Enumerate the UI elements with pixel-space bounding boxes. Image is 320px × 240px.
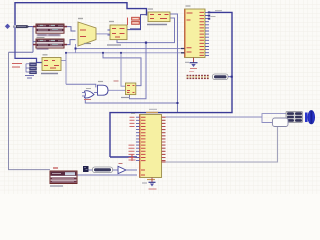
wire small gate down to row C (85, 97, 177, 104)
wire terminal to DSW1 (28, 26, 36, 28)
wire sounder return long bottom (166, 127, 278, 163)
wire trapezoid output to square box (97, 33, 111, 35)
wire vertical x33 down-left branch (9, 27, 37, 53)
wire FF bottom loop up x146 (130, 43, 147, 99)
junction dot x66 (65, 52, 67, 54)
speaker block (286, 112, 303, 123)
LCD keypad block (50, 168, 77, 186)
wire top bus from terminal to U5 (15, 3, 147, 26)
icon block (83, 166, 89, 172)
wire square box bottom row to U5 (117, 18, 175, 43)
flip-flop U7 (114, 81, 136, 98)
input terminal diamond (5, 24, 10, 29)
net label respack (213, 74, 233, 80)
junction dot x121 (120, 52, 122, 54)
wire keypad row2 to MCU2 (77, 174, 137, 176)
IC U5 (147, 9, 170, 25)
DIP block DSW2 (33, 39, 67, 49)
OR gate small (82, 89, 94, 100)
resistor pack row (187, 72, 209, 80)
white relay box (273, 118, 289, 127)
wire U5 pin1 down long x177 (170, 14, 178, 113)
ground GND1 (185, 58, 198, 69)
wire osc box output up (61, 53, 66, 85)
wire DSW2 to mux input2 (64, 40, 76, 45)
junction dot x75 (75, 48, 77, 50)
MCU U4 (181, 6, 222, 58)
wire x121 to FF left pin (121, 53, 126, 86)
junction dot x103 (102, 52, 104, 54)
wire row B to MCU pin (66, 52, 184, 54)
wire gate feed (66, 84, 96, 87)
wire row A to MCU pin (76, 48, 185, 50)
buffer gate (118, 164, 137, 174)
wire keypad row1 to MCU2 (89, 169, 138, 171)
wire jog x103 to FF right pin (103, 53, 141, 86)
AND gate (94, 82, 108, 96)
wire gate output to FF (108, 89, 126, 91)
capacitors C1 C2 (128, 15, 141, 30)
mux U1 trapezoid (78, 19, 96, 47)
wire square box to caps cluster (127, 15, 147, 30)
sounder blue (305, 110, 315, 124)
MCU U3 bottom (129, 109, 166, 179)
wire MCU2 right pin to speaker (166, 114, 287, 123)
net label DCLOCK (13, 25, 30, 28)
junction dot x146 (145, 42, 147, 44)
DIP block DSW1 (33, 24, 67, 38)
wire big loop to MCU2 (110, 12, 232, 157)
ground GND2 (142, 178, 157, 190)
wire x15 down to oscillator box (15, 27, 42, 63)
crystal cluster (12, 63, 37, 78)
oscillator box U8 (41, 55, 61, 74)
wire mux bottom pin (75, 44, 77, 53)
net label keyboard (93, 167, 113, 173)
wire long left vertical to LCD (9, 52, 51, 169)
red part on loop wire (129, 155, 136, 162)
IC U2 square (107, 22, 127, 46)
junction dot x177 row C (177, 102, 179, 104)
wire DSW1 to mux input1 (64, 27, 76, 31)
